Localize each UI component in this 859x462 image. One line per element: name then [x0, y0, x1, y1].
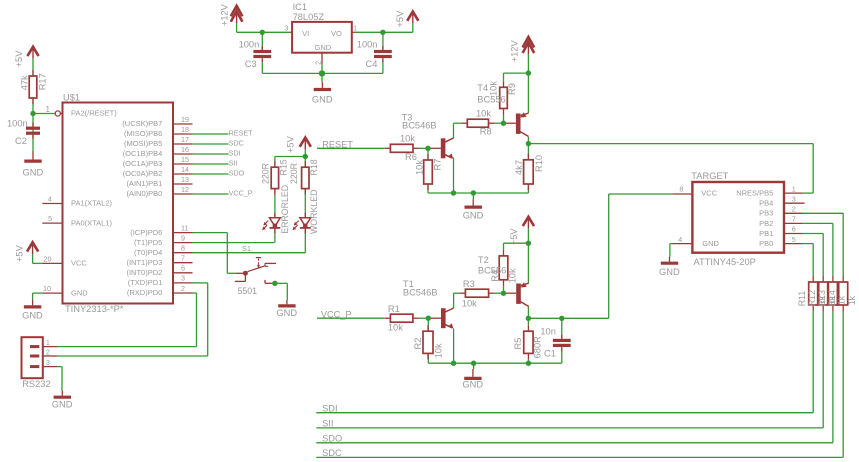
- svg-text:PA2(/RESET): PA2(/RESET): [71, 109, 117, 118]
- svg-text:PB4: PB4: [759, 199, 773, 208]
- svg-text:PB3: PB3: [759, 209, 773, 218]
- svg-text:SDO: SDO: [229, 169, 245, 178]
- svg-text:5: 5: [48, 214, 52, 223]
- svg-text:(MISO)PB6: (MISO)PB6: [124, 129, 162, 138]
- svg-text:3: 3: [792, 194, 796, 203]
- svg-text:8: 8: [181, 244, 185, 253]
- svg-text:(AIN1)PB1: (AIN1)PB1: [126, 179, 162, 188]
- svg-text:3: 3: [46, 358, 50, 367]
- svg-text:10n: 10n: [540, 326, 556, 336]
- svg-text:5: 5: [792, 235, 796, 244]
- svg-text:PB0: PB0: [759, 239, 773, 248]
- svg-text:10k: 10k: [434, 343, 444, 358]
- svg-text:WORKLED: WORKLED: [309, 190, 319, 234]
- svg-text:SDO: SDO: [322, 434, 342, 444]
- svg-text:+5V: +5V: [14, 50, 24, 68]
- svg-text:R2: R2: [413, 338, 423, 350]
- svg-text:47k: 47k: [20, 75, 30, 90]
- svg-text:R15: R15: [278, 159, 288, 175]
- svg-text:TINY2313-*P*: TINY2313-*P*: [65, 304, 124, 314]
- svg-text:+5V: +5V: [509, 228, 519, 246]
- svg-text:GND: GND: [463, 211, 484, 221]
- svg-text:GND: GND: [462, 380, 483, 390]
- svg-text:10: 10: [43, 284, 51, 293]
- svg-text:C2: C2: [15, 136, 27, 146]
- svg-text:R7: R7: [432, 159, 442, 171]
- svg-text:680R: 680R: [533, 336, 543, 359]
- svg-text:5501: 5501: [238, 286, 258, 296]
- svg-text:3: 3: [284, 23, 288, 32]
- svg-text:SDC: SDC: [322, 448, 342, 458]
- svg-text:IC1: IC1: [293, 2, 307, 12]
- svg-text:(AIN0)PB0: (AIN0)PB0: [126, 189, 162, 198]
- svg-text:SDI: SDI: [229, 149, 241, 158]
- svg-text:R10: R10: [534, 155, 544, 172]
- svg-text:+12V: +12V: [220, 3, 230, 26]
- svg-text:(OC1B)PB4: (OC1B)PB4: [123, 149, 163, 158]
- svg-text:ATTINY45-20P: ATTINY45-20P: [694, 257, 756, 267]
- svg-text:(TXD)PD1: (TXD)PD1: [128, 278, 163, 287]
- svg-text:15: 15: [181, 155, 189, 164]
- svg-text:4: 4: [678, 235, 682, 244]
- svg-text:1k: 1k: [837, 295, 847, 305]
- svg-text:1k: 1k: [847, 295, 857, 305]
- svg-text:(INT0)PD2: (INT0)PD2: [126, 268, 162, 277]
- svg-text:10k: 10k: [462, 298, 477, 308]
- svg-text:C1: C1: [544, 348, 556, 358]
- svg-text:S1: S1: [242, 244, 251, 253]
- svg-text:U$1: U$1: [63, 93, 80, 103]
- svg-text:18: 18: [181, 125, 189, 134]
- svg-text:GND: GND: [52, 399, 73, 409]
- svg-text:(INT1)PD3: (INT1)PD3: [126, 258, 162, 267]
- svg-text:1: 1: [353, 23, 357, 32]
- svg-text:4: 4: [48, 195, 52, 204]
- svg-text:GND: GND: [659, 267, 680, 277]
- svg-text:ERRORLED: ERRORLED: [280, 185, 290, 234]
- svg-text:78L05Z: 78L05Z: [293, 12, 325, 22]
- svg-text:+12V: +12V: [510, 40, 520, 63]
- svg-text:VCC_P: VCC_P: [229, 189, 253, 198]
- svg-text:19: 19: [181, 115, 189, 124]
- svg-text:12: 12: [181, 185, 189, 194]
- svg-text:1: 1: [792, 184, 796, 193]
- svg-text:20: 20: [44, 255, 52, 264]
- svg-text:16: 16: [181, 145, 189, 154]
- svg-text:100n: 100n: [357, 39, 378, 49]
- svg-text:R9: R9: [507, 83, 517, 95]
- svg-text:10k: 10k: [488, 81, 498, 96]
- svg-text:10k: 10k: [400, 134, 415, 144]
- svg-text:(MOSI)PB5: (MOSI)PB5: [124, 139, 162, 148]
- svg-text:(OC0A)PB2: (OC0A)PB2: [123, 169, 163, 178]
- svg-text:2: 2: [46, 347, 50, 356]
- svg-text:R11: R11: [797, 291, 807, 307]
- svg-text:(T0)PD4: (T0)PD4: [134, 248, 162, 257]
- svg-text:T4: T4: [477, 83, 488, 93]
- svg-text:2: 2: [792, 205, 796, 214]
- svg-text:R14: R14: [827, 290, 837, 306]
- svg-text:+5V: +5V: [286, 135, 296, 153]
- svg-text:T2: T2: [478, 255, 489, 265]
- svg-text:(RXD)PD0: (RXD)PD0: [127, 288, 162, 297]
- svg-text:C3: C3: [245, 59, 257, 69]
- svg-text:(T1)PD5: (T1)PD5: [134, 238, 162, 247]
- svg-text:(ICP)PD6: (ICP)PD6: [130, 228, 162, 237]
- svg-text:220R: 220R: [260, 163, 270, 184]
- svg-text:PB2: PB2: [759, 219, 773, 228]
- svg-text:9: 9: [181, 233, 185, 242]
- svg-text:10k: 10k: [508, 268, 518, 283]
- svg-text:GND: GND: [71, 288, 88, 297]
- svg-text:SII: SII: [229, 159, 238, 168]
- svg-text:R12: R12: [807, 290, 817, 306]
- svg-text:GND: GND: [22, 311, 43, 321]
- svg-text:6: 6: [181, 264, 185, 273]
- svg-text:SDI: SDI: [322, 404, 338, 414]
- svg-text:100n: 100n: [7, 119, 28, 129]
- svg-text:C4: C4: [366, 59, 378, 69]
- svg-text:R13: R13: [817, 290, 827, 306]
- svg-text:11: 11: [181, 223, 188, 232]
- svg-text:2: 2: [314, 61, 323, 65]
- svg-text:GND: GND: [315, 43, 332, 52]
- svg-text:+5V: +5V: [15, 244, 25, 262]
- svg-text:GND: GND: [702, 239, 719, 248]
- svg-text:SDC: SDC: [229, 139, 244, 148]
- svg-text:VCC: VCC: [701, 189, 717, 198]
- svg-text:VI: VI: [302, 29, 309, 38]
- svg-text:8: 8: [679, 184, 683, 193]
- svg-text:6: 6: [792, 225, 796, 234]
- svg-text:TARGET: TARGET: [691, 171, 728, 181]
- svg-text:R18: R18: [309, 159, 319, 175]
- svg-text:VCC: VCC: [71, 259, 87, 268]
- svg-text:(OC1A)PB3: (OC1A)PB3: [123, 159, 163, 168]
- svg-text:4k7: 4k7: [514, 160, 524, 175]
- svg-text:R1: R1: [388, 304, 400, 314]
- svg-text:10k: 10k: [388, 323, 403, 333]
- svg-text:PA0(XTAL1): PA0(XTAL1): [71, 218, 112, 227]
- svg-text:7: 7: [181, 254, 185, 263]
- svg-text:RESET: RESET: [322, 139, 353, 149]
- svg-text:(UCSK)PB7: (UCSK)PB7: [122, 119, 162, 128]
- svg-text:17: 17: [181, 135, 189, 144]
- svg-text:R8: R8: [480, 127, 492, 137]
- svg-text:10k: 10k: [414, 160, 424, 175]
- svg-text:NRES/PB5: NRES/PB5: [736, 189, 773, 198]
- svg-text:BC546B: BC546B: [403, 288, 438, 298]
- svg-text:BC546B: BC546B: [402, 120, 437, 130]
- svg-text:1: 1: [46, 105, 51, 114]
- svg-text:VO: VO: [331, 29, 342, 38]
- svg-text:R4: R4: [490, 270, 500, 282]
- svg-text:7: 7: [792, 215, 796, 224]
- svg-text:100n: 100n: [239, 39, 260, 49]
- svg-text:GND: GND: [23, 168, 44, 178]
- svg-text:R3: R3: [463, 279, 475, 289]
- svg-text:SII: SII: [322, 419, 333, 429]
- svg-text:R17: R17: [38, 73, 48, 90]
- svg-text:1: 1: [46, 338, 50, 347]
- svg-text:RESET: RESET: [229, 129, 254, 138]
- svg-text:PA1(XTAL2): PA1(XTAL2): [71, 199, 112, 208]
- svg-text:+5V: +5V: [395, 10, 405, 28]
- svg-text:R5: R5: [513, 338, 523, 350]
- svg-text:RS232: RS232: [22, 379, 50, 389]
- svg-text:GND: GND: [276, 308, 297, 318]
- svg-text:14: 14: [181, 165, 189, 174]
- svg-text:3: 3: [181, 274, 185, 283]
- svg-text:13: 13: [181, 175, 189, 184]
- svg-text:GND: GND: [312, 95, 333, 105]
- svg-text:10k: 10k: [476, 109, 491, 119]
- svg-text:220R: 220R: [289, 163, 299, 184]
- svg-text:VCC_P: VCC_P: [321, 309, 352, 319]
- svg-text:2: 2: [181, 284, 185, 293]
- svg-text:PB1: PB1: [759, 229, 773, 238]
